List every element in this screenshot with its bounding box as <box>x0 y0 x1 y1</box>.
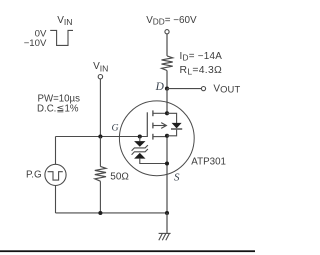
wire RL to node D <box>166 71 168 89</box>
svg-text:P.G: P.G <box>26 170 42 181</box>
zener branch top wire <box>139 137 141 142</box>
transistor Q1 body stub with p-channel arrow <box>153 125 166 127</box>
junction source/rail <box>165 211 169 215</box>
zener diode Z2 cathode bar <box>132 149 148 155</box>
transistor Q1 gate bar <box>146 112 148 137</box>
zener branch bottom wire <box>140 159 168 164</box>
wire P.G bottom branch <box>55 186 57 214</box>
zener diode Z2 triangle <box>134 153 145 159</box>
transistor Q1 drain stub <box>153 112 167 114</box>
junction at VIN/gate line <box>98 134 102 138</box>
bottom page rule <box>0 250 255 252</box>
body diode branch wires <box>167 113 177 136</box>
svg-text:VDD= −60V: VDD= −60V <box>146 15 197 27</box>
zener diode Z1 cathode bar <box>132 145 148 151</box>
resistor 50 ohm (wire + zigzag) <box>99 137 101 167</box>
junction node D <box>165 87 169 91</box>
ground <box>166 213 168 234</box>
svg-text:G: G <box>112 122 119 133</box>
svg-text:VIN: VIN <box>93 61 108 73</box>
svg-text:ATP301: ATP301 <box>191 157 226 168</box>
svg-text:VOUT: VOUT <box>213 83 240 94</box>
body diode triangle <box>172 123 182 128</box>
node VOUT terminal <box>201 87 205 91</box>
zener diode Z1 triangle <box>134 141 145 147</box>
wire VDD to RL <box>166 34 168 56</box>
body diode cathode bar <box>171 128 182 130</box>
svg-text:S: S <box>174 171 180 183</box>
svg-text:ID= −14A: ID= −14A <box>180 51 223 63</box>
transistor Q1 channel dashes <box>152 110 154 116</box>
junction drain stub <box>165 111 169 115</box>
VIN input pulse waveform <box>50 30 73 45</box>
svg-text:RL=4.3Ω: RL=4.3Ω <box>180 65 223 77</box>
svg-text:−10V: −10V <box>24 38 47 49</box>
junction at zener branch on gate line <box>138 134 142 138</box>
junction 50ohm / rail <box>98 211 102 215</box>
node VDD terminal <box>165 30 169 34</box>
transistor Q1 source stub <box>153 136 167 138</box>
transistor Q1 envelope circle <box>119 101 194 176</box>
junction source stub <box>165 134 169 138</box>
wire VIN terminal down to gate line <box>99 79 101 137</box>
svg-text:D: D <box>155 81 165 93</box>
svg-text:D.C.≦1%: D.C.≦1% <box>37 103 79 114</box>
wire P.G top branch <box>55 137 57 165</box>
wire bottom rail <box>56 212 168 214</box>
wire node D to VOUT <box>167 88 201 90</box>
resistor RL zigzag <box>162 56 173 71</box>
junction zener/source line <box>165 161 169 165</box>
wire gate horizontal line <box>56 136 148 138</box>
wire drain-source vertical line <box>166 89 168 114</box>
svg-text:50Ω: 50Ω <box>110 172 129 183</box>
svg-text:VIN: VIN <box>57 15 72 27</box>
